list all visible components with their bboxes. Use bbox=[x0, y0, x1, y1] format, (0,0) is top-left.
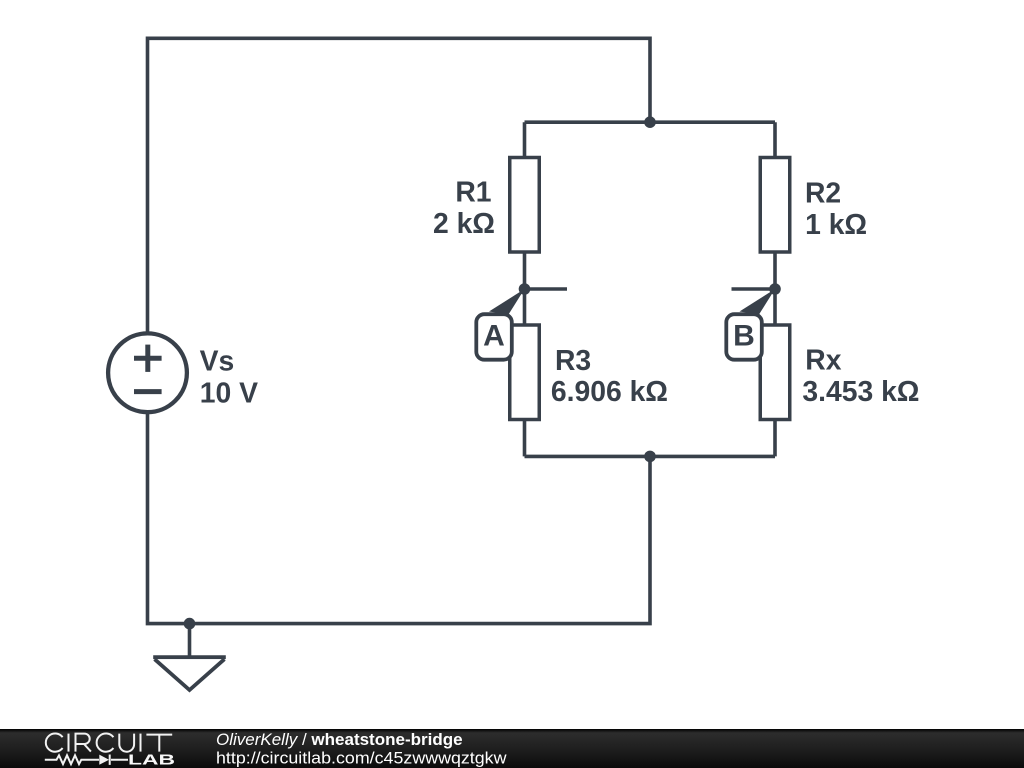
svg-text:Vs: Vs bbox=[200, 344, 235, 376]
svg-text:http://circuitlab.com/c45zwwwq: http://circuitlab.com/c45zwwwqztgkw bbox=[216, 748, 507, 767]
svg-text:B: B bbox=[733, 320, 755, 353]
svg-text:R1: R1 bbox=[455, 175, 491, 207]
svg-text:R3: R3 bbox=[555, 344, 591, 376]
svg-text:R2: R2 bbox=[805, 177, 841, 209]
svg-text:LAB: LAB bbox=[128, 753, 175, 768]
svg-text:Rx: Rx bbox=[805, 344, 841, 376]
svg-text:3.453 kΩ: 3.453 kΩ bbox=[802, 375, 919, 407]
svg-text:6.906 kΩ: 6.906 kΩ bbox=[551, 375, 668, 407]
svg-text:10 V: 10 V bbox=[200, 377, 258, 409]
svg-text:OliverKelly / wheatstone-bridg: OliverKelly / wheatstone-bridge bbox=[216, 730, 463, 749]
svg-text:2 kΩ: 2 kΩ bbox=[433, 207, 495, 239]
svg-text:A: A bbox=[483, 320, 505, 353]
svg-text:1 kΩ: 1 kΩ bbox=[805, 208, 867, 240]
